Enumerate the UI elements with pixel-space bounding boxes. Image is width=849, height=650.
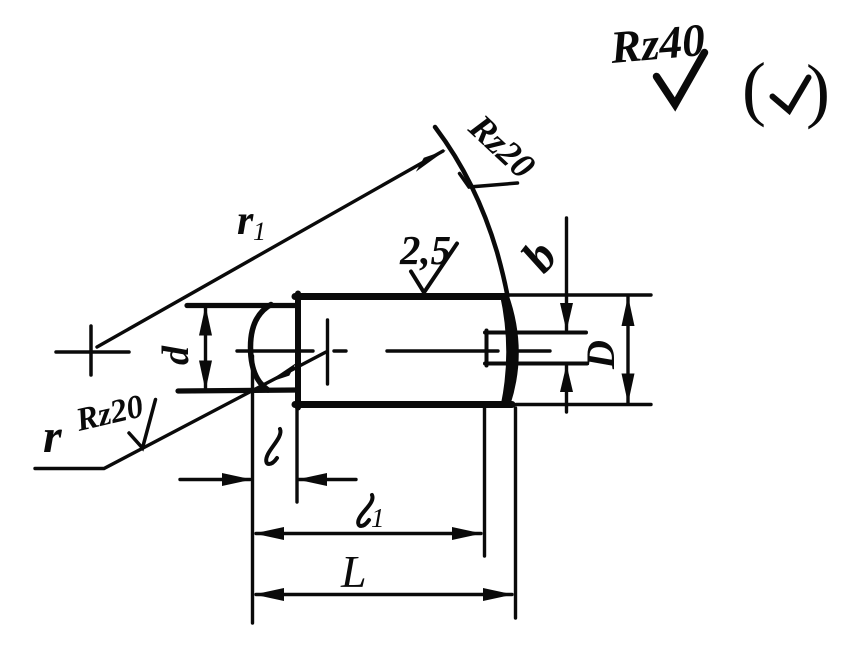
- extension line left (sphere tip): [251, 356, 254, 623]
- dimension d line: [204, 306, 207, 390]
- label l1: [358, 495, 372, 526]
- wire r1 radius line: [97, 151, 443, 347]
- leader r with Rz20: [35, 352, 326, 469]
- svg-text:Rz20: Rz20: [461, 106, 543, 186]
- roughness tick Rz40: [657, 53, 705, 105]
- dimension b line: [565, 218, 568, 412]
- svg-text:r: r: [237, 198, 254, 244]
- svg-text:D: D: [578, 340, 623, 370]
- svg-text:2,5: 2,5: [399, 227, 451, 273]
- nose bottom edge + d extension: [178, 390, 298, 391]
- slot left edge: [485, 331, 489, 366]
- dimension D line: [626, 296, 629, 404]
- sphere center mark: [326, 320, 329, 384]
- node center cross r1: [56, 326, 129, 375]
- r arrowhead on sphere: [266, 363, 296, 383]
- D bottom extension line: [516, 403, 651, 406]
- part body bottom edge: [295, 401, 512, 408]
- check mark in parentheses: [773, 78, 809, 111]
- D top extension line: [509, 293, 651, 296]
- svg-text:d: d: [155, 345, 197, 365]
- svg-text:b: b: [511, 231, 568, 283]
- svg-text:L: L: [340, 546, 367, 597]
- roughness tick bottom leader: [129, 400, 156, 449]
- dimension l1 line: [256, 532, 481, 535]
- svg-text:): ): [806, 50, 830, 130]
- roughness tick 2,5 on top edge: [411, 244, 457, 293]
- big arc radius r1: [435, 127, 508, 296]
- centerline axis: [237, 349, 550, 352]
- slot top line + b extension: [485, 331, 586, 335]
- extension line slot edge: [483, 408, 486, 556]
- svg-text:(: (: [742, 48, 766, 128]
- svg-text:Rz20: Rz20: [72, 388, 147, 439]
- label l: [266, 429, 280, 464]
- extension line nose shoulder: [295, 408, 298, 502]
- r1 arrowhead: [416, 150, 446, 172]
- svg-text:1: 1: [253, 217, 266, 246]
- slot bottom line + b extension: [485, 362, 587, 366]
- svg-text:r: r: [43, 410, 63, 463]
- part spherical end face: [501, 294, 519, 405]
- part body left shoulder edge: [295, 294, 301, 408]
- part body outline top edge: [295, 293, 506, 300]
- nose top edge + d extension: [187, 303, 298, 308]
- roughness tick on arc: [460, 174, 518, 188]
- svg-text:Rz40: Rz40: [607, 14, 707, 73]
- nose sphere arc: [251, 305, 272, 391]
- dimension L line: [256, 593, 512, 596]
- svg-text:1: 1: [371, 503, 385, 533]
- dimension l line: [180, 478, 356, 481]
- extension line right end: [514, 408, 517, 618]
